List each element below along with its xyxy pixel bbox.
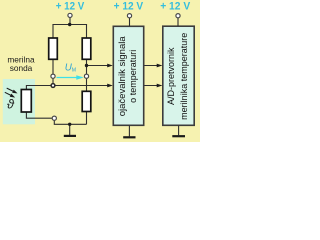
svg-text:o temperaturi: o temperaturi xyxy=(128,50,138,103)
svg-text:M: M xyxy=(72,68,76,74)
svg-text:+ 12 V: + 12 V xyxy=(56,1,85,13)
svg-text:merilnika temperature: merilnika temperature xyxy=(179,33,189,120)
svg-text:ϑ: ϑ xyxy=(7,96,15,111)
svg-text:ojačevalnik signala: ojačevalnik signala xyxy=(117,36,127,116)
svg-text:+ 12 V: + 12 V xyxy=(114,1,144,13)
svg-text:sonda: sonda xyxy=(10,63,33,73)
svg-text:A/D-pretvornik: A/D-pretvornik xyxy=(166,47,176,105)
svg-text:+ 12 V: + 12 V xyxy=(160,1,191,13)
